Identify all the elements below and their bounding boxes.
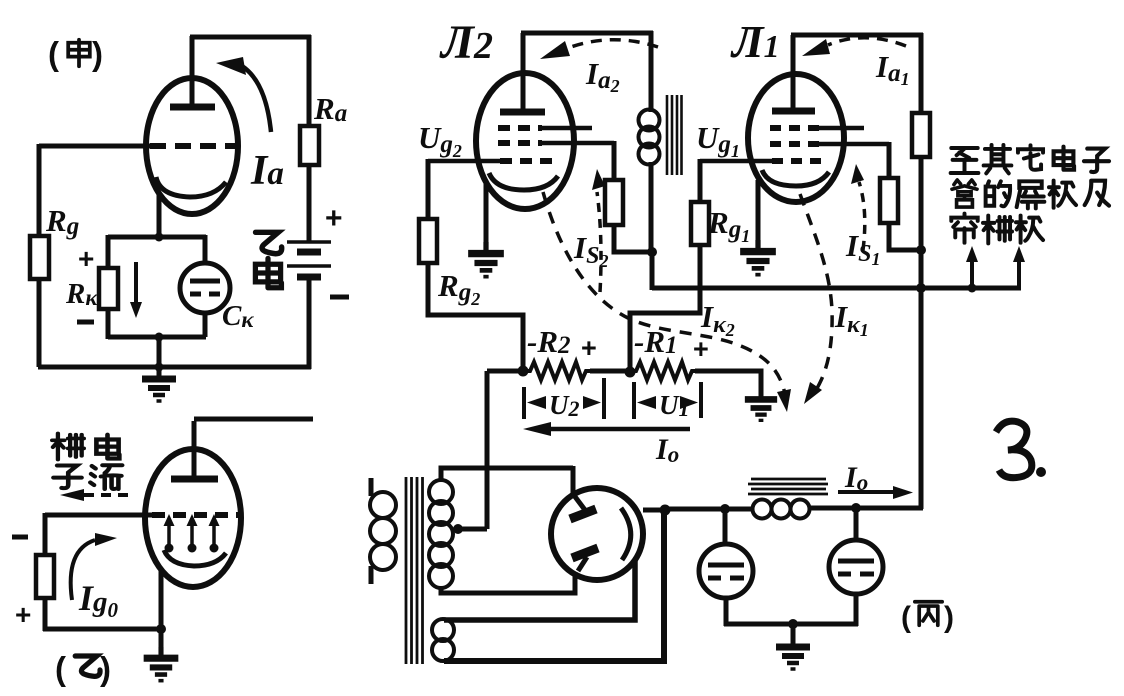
dashed curve Ik2	[543, 192, 785, 394]
cathode lead	[159, 570, 164, 629]
node B+ Л1	[916, 245, 926, 255]
capacitor C1	[699, 544, 753, 598]
svg-text:(: (	[901, 601, 911, 634]
arrow Io (bias)	[538, 427, 690, 432]
node rectifier output	[660, 505, 671, 516]
node bus	[916, 283, 926, 293]
current arrow Ig0	[71, 540, 95, 600]
C2 leads	[854, 508, 859, 540]
tube Л2 plate lead	[521, 33, 526, 109]
battery 乙电 plates	[287, 240, 331, 244]
wire to rectifier anode 1	[571, 466, 576, 496]
wire choke to bus corner	[809, 506, 923, 511]
svg-text:+: +	[78, 243, 94, 274]
svg-text:+: +	[325, 202, 343, 235]
tube V2 envelope	[145, 449, 241, 587]
wire grid to left resistor	[45, 513, 154, 518]
svg-text:): )	[944, 601, 954, 634]
tube Л1 grid g3 (dashed)	[770, 125, 820, 131]
ground (乙)	[159, 630, 164, 650]
wire Rg2 down and right	[428, 263, 523, 371]
center tap wire	[458, 527, 487, 532]
wire right side to Ck	[203, 235, 208, 264]
tube Л2 envelope	[476, 73, 574, 209]
cathode lead	[157, 192, 162, 237]
wire box to rail	[157, 337, 162, 367]
screen lead down to IS1	[887, 142, 892, 178]
T2 core	[667, 95, 682, 175]
dashed arrow IS2	[597, 192, 601, 292]
resistor Rk	[99, 268, 118, 309]
filament bottom lead	[444, 512, 664, 661]
cathode lead Л2	[484, 184, 489, 252]
U2 arrow left	[527, 396, 546, 409]
tube Л2 cathode	[489, 173, 558, 190]
HV secondary winding	[429, 480, 453, 504]
grid current dashed arrow	[84, 493, 132, 497]
tube V2 plate lead	[192, 421, 197, 476]
tube Л1 cathode	[762, 170, 829, 186]
wire R1 right to ground	[695, 371, 761, 398]
tube Л1 envelope	[748, 74, 844, 202]
U2 tick left	[522, 387, 526, 419]
node cathode/ground	[156, 624, 166, 634]
wire battery to bottom rail	[307, 277, 312, 369]
filament winding	[432, 619, 454, 641]
wire Rk to box bottom	[106, 309, 111, 339]
tube Л2 plate	[500, 109, 545, 116]
capacitor C2	[829, 540, 883, 594]
node screen/plate supply Л2	[647, 247, 657, 257]
wire plate top rail	[791, 33, 923, 38]
wire plate to right	[194, 417, 313, 422]
current arrow Ia	[242, 66, 271, 132]
screen lead down to IS2 resistor	[612, 141, 617, 180]
filter bottom rail	[724, 622, 858, 627]
electron arrows to grid	[164, 514, 220, 553]
wire IS1 to node	[889, 223, 921, 250]
dashed arrow IS1	[859, 182, 865, 250]
T2 primary loops	[639, 110, 660, 131]
arrow Io (output)	[838, 490, 896, 494]
wire resistor to bottom	[43, 598, 48, 631]
resistor - sign	[12, 535, 28, 540]
wire down to anode resistor	[919, 33, 924, 113]
wire bus down to rectifier output	[919, 288, 924, 509]
U1 arrow left	[637, 396, 656, 409]
primary lead top	[369, 478, 374, 496]
bottom rail	[38, 365, 311, 370]
U1 tick left	[632, 382, 636, 419]
label 子流	[53, 465, 81, 488]
primary lead bottom	[369, 566, 374, 584]
tube V1 plate	[170, 104, 215, 111]
U2 arrow right	[583, 396, 601, 409]
tube V2 plate	[171, 476, 218, 483]
U2 tick right	[602, 378, 606, 419]
node filter ground	[788, 619, 798, 629]
rectifier envelope	[551, 488, 643, 580]
figure number 3.	[996, 421, 1032, 478]
battery - sign	[330, 295, 349, 300]
node R2 left	[518, 366, 529, 377]
resistor Rg1	[691, 202, 709, 245]
label 管的屏极及	[952, 180, 977, 207]
tube Л1 plate lead	[791, 35, 796, 108]
filter choke winding	[753, 500, 772, 519]
wire grid to Rg	[39, 144, 152, 149]
resistor Ra	[300, 126, 319, 165]
tube Л2 screen grid g2 (dashed)	[498, 140, 542, 146]
wire top rail down to Ra	[307, 35, 312, 126]
HV top lead	[441, 468, 573, 482]
wire IS2 to node	[614, 225, 654, 252]
tube V1 grid (dashed)	[150, 143, 236, 149]
cathode lead Л1	[756, 180, 761, 250]
ground Л1 cathode	[740, 240, 776, 275]
resistor Rg	[30, 236, 49, 279]
label 至其它电子	[951, 148, 979, 173]
wire grid to Rg2	[426, 159, 431, 219]
bottom wire	[43, 627, 163, 632]
wire Rg1 down left to R1	[630, 245, 700, 371]
wire plate top rail	[521, 31, 653, 36]
wire node to bus	[919, 250, 924, 289]
svg-text:(: (	[55, 650, 66, 687]
ground Л2 cathode	[468, 242, 504, 277]
box bottom wire	[108, 335, 206, 340]
wire node to center tap drop	[487, 369, 523, 374]
svg-text:+: +	[581, 333, 597, 363]
wire T2 to node	[649, 162, 654, 254]
svg-text:): )	[92, 35, 103, 72]
tube V1 envelope	[146, 78, 238, 214]
Rk/Ck box top wire	[108, 235, 206, 240]
wire plate to top rail	[190, 35, 311, 40]
tube Л2 control grid (dashed)	[500, 158, 552, 164]
rectifier cathode arc	[621, 508, 631, 560]
wire left side down	[106, 235, 111, 268]
bus horizontal wire	[652, 286, 1021, 291]
current arrow in box	[134, 262, 138, 303]
wire Ra to battery	[307, 165, 312, 241]
tube V2 cathode	[164, 550, 226, 566]
tube V1 cathode	[156, 177, 226, 197]
resistor IS1	[880, 178, 898, 223]
wire down to center tap	[485, 371, 490, 529]
dashed curve Ik1	[800, 194, 832, 390]
node cathode	[155, 233, 164, 242]
ground R1	[745, 389, 777, 420]
wire node down to bus	[650, 252, 655, 290]
node C1	[720, 504, 730, 514]
anode resistor Л1	[912, 113, 930, 157]
label 栅电	[52, 433, 84, 459]
filament top lead	[444, 560, 635, 620]
tube Л2 grid g3 (dashed)	[498, 125, 542, 131]
grid leak resistor	[36, 555, 54, 598]
wire R2 to R1	[590, 369, 632, 374]
svg-text:(: (	[48, 35, 59, 72]
center tap node	[453, 524, 463, 534]
output wire to node	[643, 508, 667, 513]
C1 leads	[723, 509, 728, 544]
dashed arrow Ia1	[828, 38, 906, 46]
svg-text:+: +	[693, 334, 709, 364]
tube Л1 plate	[772, 108, 815, 115]
svg-text:+: +	[15, 599, 31, 630]
branch arrow 2	[1017, 260, 1021, 290]
anode 1 stub	[573, 494, 585, 510]
node box bottom	[155, 333, 164, 342]
anode 2 stub	[578, 557, 587, 571]
resistor Rg2	[419, 219, 437, 263]
primary winding	[370, 492, 396, 518]
tube V2 grid (dashed)	[152, 512, 240, 518]
wire Ck to box bottom	[203, 313, 208, 337]
Rk - sign	[77, 320, 94, 325]
label 乙电	[255, 232, 281, 287]
U1 tick right	[699, 382, 703, 418]
resistor R2 zigzag	[523, 362, 591, 380]
output transformer T2 primary wire	[649, 31, 654, 112]
node R1 left	[625, 367, 636, 378]
tube V1 plate lead	[190, 36, 195, 104]
node C2	[851, 503, 861, 513]
U1 arrow right	[680, 396, 698, 409]
HV bottom lead	[441, 572, 575, 593]
transformer core	[406, 477, 423, 664]
B+ wire to choke	[665, 507, 754, 512]
choke core	[748, 479, 828, 494]
capacitor Ck	[180, 263, 230, 313]
ground (甲)	[142, 368, 176, 401]
wire resistor to node	[919, 157, 924, 252]
resistor IS2	[605, 180, 623, 225]
ground filter	[791, 624, 796, 645]
branch arrow 1	[968, 284, 977, 293]
svg-text:): )	[100, 650, 111, 687]
dashed arrow Ia2	[568, 40, 658, 48]
node rail	[155, 363, 164, 372]
wire grid to Rg1	[698, 159, 703, 202]
resistor R1 zigzag	[630, 362, 697, 380]
tube Л1 screen grid (dashed)	[770, 141, 820, 147]
label 帘栅极	[951, 214, 977, 243]
wire Rg to bottom rail	[37, 279, 42, 367]
tube Л1 control grid (dashed)	[772, 158, 822, 164]
